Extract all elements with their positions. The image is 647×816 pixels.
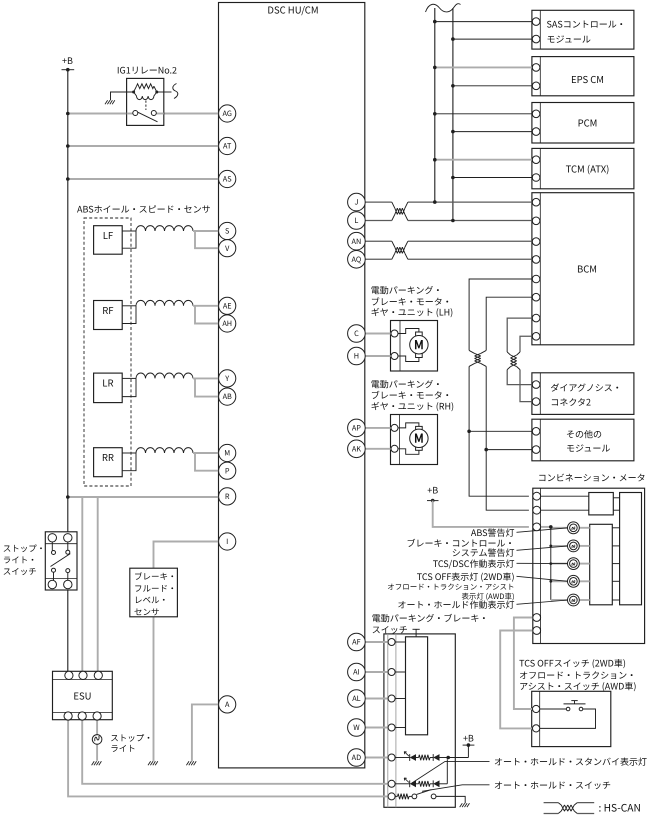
sensor RR wire to DSC (upper) — [193, 452, 219, 454]
ABS wheel speed sensor RF box — [94, 301, 123, 330]
svg-text:EPS CM: EPS CM — [571, 72, 604, 86]
auto hold switch contact row — [395, 795, 397, 797]
DSC pin AF — [348, 633, 366, 651]
wire DSC L to BCM (CAN twisted pair) — [365, 220, 532, 222]
DSC pin AQ — [348, 250, 366, 268]
svg-text:AD: AD — [352, 753, 361, 763]
stop light switch terminals — [48, 534, 56, 542]
wire AT row — [68, 145, 219, 147]
HS-CAN bus line 1 — [434, 8, 436, 202]
relay switch contacts — [133, 111, 138, 116]
wire meter top block to right block — [613, 497, 619, 499]
svg-text:P: P — [225, 466, 230, 476]
svg-text:ストップ・: ストップ・ — [3, 543, 46, 555]
svg-text:RF: RF — [102, 303, 113, 317]
wire DSC H to parking brake motor LH — [365, 355, 391, 357]
TCS OFF push switch contacts — [540, 708, 567, 710]
wire meter pin to top block 1 — [541, 495, 589, 497]
motor brushes — [416, 426, 423, 431]
wire to TCS/DSC indicator lamp — [551, 563, 568, 565]
wire I row to brake fluid level sensor and ground — [154, 542, 219, 762]
ground for brake fluid level sensor — [148, 761, 158, 765]
lamp daisy chain vertical — [550, 527, 552, 600]
TCS OFF switch box — [532, 691, 611, 746]
wire BCM pin7 to diagnosis connector 2 (twisted) — [507, 318, 532, 385]
wire A row to ground — [192, 704, 219, 761]
svg-text:TCS OFFスイッチ (2WD車): TCS OFFスイッチ (2WD車) — [519, 657, 626, 670]
stop light switch internal links — [51, 542, 53, 551]
svg-text:+B: +B — [427, 484, 438, 497]
sensor RR wire to DSC (lower) — [195, 453, 219, 471]
svg-text:LR: LR — [102, 375, 113, 389]
svg-text:I: I — [226, 537, 228, 547]
wire DSC AD to parking brake switch — [365, 757, 388, 759]
DSC pin M — [219, 444, 236, 461]
relay lead to ignition (continuation squiggle) — [157, 91, 172, 93]
relay coil lead to ground — [111, 92, 134, 100]
svg-text:モジュール: モジュール — [547, 33, 591, 46]
DSC pin AG — [219, 105, 236, 122]
DSC pin C — [348, 325, 366, 343]
wire DSC AN to BCM (CAN twisted pair) — [365, 240, 532, 242]
leader TCS OFF indicator light — [517, 576, 569, 581]
DSC pin R — [219, 488, 236, 505]
ABS wheel speed sensor LF box — [94, 226, 123, 255]
sensor RF wire to DSC (upper) — [193, 305, 219, 307]
wire bus to EPS CM pin 2 — [453, 85, 533, 87]
svg-text:AH: AH — [222, 319, 232, 329]
svg-text:: HS-CAN: : HS-CAN — [599, 800, 641, 815]
DSC pin AB — [219, 388, 236, 405]
svg-text:レベル・: レベル・ — [134, 594, 168, 606]
sensor LR top lead — [122, 377, 136, 379]
combination meter box — [533, 488, 645, 643]
auto hold switch blade — [417, 790, 432, 795]
DSC pin AS — [219, 170, 236, 187]
relay row wire segments inside box — [127, 113, 133, 115]
DSC pin AI — [348, 663, 366, 681]
wire to brake system warning lamp — [551, 545, 568, 547]
TCM (ATX) box — [532, 148, 634, 188]
PCM pins — [532, 110, 540, 118]
sensor LF top lead — [122, 230, 136, 232]
EPS CM pins — [532, 64, 540, 72]
ground for auto hold switch — [460, 803, 470, 807]
SAS module pins — [532, 18, 540, 26]
stop light lamp — [92, 735, 102, 745]
svg-text:AE: AE — [223, 301, 232, 311]
wire DSC W to parking brake switch — [365, 727, 388, 729]
DSC pin I — [219, 533, 236, 550]
svg-text:AI: AI — [353, 668, 360, 678]
svg-text:TCM (ATX): TCM (ATX) — [566, 162, 610, 176]
sensor RR twisted cable coil — [136, 448, 193, 453]
SAS control module box — [532, 10, 634, 49]
electric parking brake motor gear unit RH box — [391, 415, 438, 465]
sensor RF bottom lead — [122, 306, 136, 324]
wire R row to ESU branches — [68, 496, 219, 498]
wire bus to TCM pin 1 — [435, 159, 533, 161]
svg-text:AT: AT — [223, 142, 232, 152]
DSC pin AL — [348, 690, 366, 708]
wire meter to TCS OFF switch pin 2 — [500, 631, 533, 729]
svg-text:ブレーキ・: ブレーキ・ — [134, 571, 177, 583]
wire ESU to auto hold standby row — [82, 716, 388, 784]
wire ESU to stop light lamp and ground — [96, 716, 98, 761]
electric parking brake motor gear unit LH box — [391, 321, 438, 372]
svg-text:LF: LF — [103, 228, 113, 242]
sensor RR bottom lead — [122, 453, 136, 471]
bus continuation wave symbol — [426, 4, 461, 12]
combination meter pins — [533, 492, 541, 500]
relay mechanical link (dashed) — [145, 101, 147, 111]
svg-text:AS: AS — [223, 175, 232, 185]
ESU top terminals — [65, 671, 73, 679]
diagnosis connector 2 box — [532, 373, 634, 415]
lamp output wires to driver block — [579, 527, 590, 529]
sensor LF wire to DSC (lower) — [195, 231, 219, 248]
sensor LR wire to DSC (lower) — [195, 378, 219, 396]
wire bus to TCM pin 2 — [453, 177, 533, 179]
svg-text:S: S — [225, 227, 230, 237]
ABS wheel speed sensor RR box — [94, 448, 123, 477]
svg-text:ABSホイール・スピード・センサ: ABSホイール・スピード・センサ — [77, 203, 211, 216]
stop light switch contacts — [52, 551, 56, 555]
svg-text:オート・ホールド・スタンバイ表示灯: オート・ホールド・スタンバイ表示灯 — [494, 755, 647, 768]
DSC pin W — [348, 719, 366, 737]
motor wiring lower — [398, 356, 419, 362]
TCS OFF switch pins — [533, 705, 540, 712]
wire bus to EPS CM pin 1 — [435, 66, 533, 68]
wire branch to ESU pin 2 — [81, 497, 83, 673]
twisted pair symbol J/L — [392, 202, 408, 220]
twisted pair symbol AN/AQ — [392, 241, 408, 259]
wire AG row (IG1 relay to DSC pin AG) — [68, 113, 219, 115]
motor M circle — [410, 429, 428, 447]
sensor RF twisted cable coil — [136, 300, 193, 305]
brake fluid level sensor box — [130, 568, 178, 617]
DSC pin A — [219, 696, 236, 713]
svg-text:モジュール: モジュール — [566, 442, 610, 455]
meter internal block right — [620, 493, 642, 605]
svg-text:+B: +B — [62, 54, 73, 67]
sensor LF wire to DSC (upper) — [193, 230, 219, 232]
DSC pin AH — [219, 315, 236, 332]
sensor LR wire to DSC (upper) — [193, 377, 219, 379]
DSC pin AN — [348, 232, 366, 250]
DSC HU/CM unit box — [219, 3, 365, 768]
motor wiring upper — [398, 423, 419, 428]
motor brushes — [416, 332, 423, 337]
svg-text:TCS/DSC作動表示灯: TCS/DSC作動表示灯 — [433, 557, 515, 570]
wire BCM pin8 to diagnosis connector 2 (twisted) — [520, 336, 532, 401]
svg-text:AF: AF — [352, 638, 360, 648]
other modules box — [532, 419, 634, 461]
svg-text:コンビネーション・メータ: コンビネーション・メータ — [538, 471, 646, 484]
svg-text:AL: AL — [352, 694, 360, 704]
DSC pin AE — [219, 297, 236, 314]
wire bus to PCM pin 2 — [453, 131, 533, 133]
wire LED row 2 up to +B node — [446, 759, 448, 784]
svg-text:センサ: センサ — [134, 606, 160, 618]
IG1 relay No.2 box — [127, 78, 164, 125]
wire BCM pin6 down to other modules and meter (twisted) — [486, 297, 532, 510]
pin stubs to contact block — [395, 641, 405, 643]
svg-text:ライト・: ライト・ — [3, 554, 37, 566]
auto hold standby LED row (AD) — [395, 757, 410, 759]
diagnosis connector 2 pins — [532, 381, 540, 389]
twisted pair symbol BCM/meter — [469, 350, 486, 366]
BCM pins — [532, 198, 540, 206]
leader line auto hold standby indicator — [412, 761, 490, 783]
ground for DSC pin A — [186, 761, 196, 765]
driver block to right block connectors — [612, 527, 619, 529]
TCS OFF switch return wire — [540, 709, 596, 728]
sensor LF twisted cable coil — [136, 226, 193, 231]
relay switch blade — [138, 112, 158, 122]
sensor RF wire to DSC (lower) — [195, 306, 219, 324]
DSC pin AT — [219, 137, 236, 154]
svg-text:ライト: ライト — [110, 743, 136, 755]
svg-text:コネクタ2: コネクタ2 — [550, 396, 591, 409]
svg-text:ダイアグノシス・: ダイアグノシス・ — [550, 381, 621, 394]
parking brake switch inner contact block — [406, 637, 428, 735]
stop light switch blade — [51, 554, 71, 567]
svg-text:その他の: その他の — [566, 428, 602, 441]
wire branch to other modules pin 1 — [469, 430, 532, 432]
sensor LR bottom lead — [122, 378, 136, 396]
wire branch to other modules pin 2 — [486, 449, 532, 451]
wire ESU to auto hold switch row (lower) — [68, 716, 388, 796]
brake control system warning lamp — [568, 540, 580, 552]
PCM box — [532, 103, 634, 144]
wire DSC AP to parking brake motor RH — [365, 427, 391, 429]
svg-text:RR: RR — [102, 450, 114, 464]
wire branch to ESU pin 3 — [97, 497, 99, 673]
wire DSC AL to parking brake switch — [365, 698, 388, 700]
sensor RF top lead — [122, 305, 136, 307]
TCS/DSC indicator lamp — [568, 558, 580, 570]
svg-text:ギヤ・ユニット (RH): ギヤ・ユニット (RH) — [371, 400, 454, 413]
motor pins — [391, 330, 398, 337]
wire DSC J to BCM (CAN twisted pair) — [365, 201, 532, 203]
wire stop light switch to ESU — [67, 589, 69, 672]
wire AS row — [68, 178, 219, 180]
svg-text:AP: AP — [352, 424, 361, 434]
parking brake switch pins — [388, 639, 395, 646]
svg-text:BCM: BCM — [577, 262, 597, 276]
main left bus wire from +B — [67, 70, 69, 534]
parking brake switch connector rails — [387, 634, 389, 807]
TCM pins — [532, 156, 540, 164]
wire meter to TCS OFF switch pin 1 — [514, 618, 533, 710]
svg-text:R: R — [225, 492, 230, 502]
wire +B to meter lamp feed pin — [433, 501, 529, 527]
svg-text:AN: AN — [352, 237, 362, 247]
meter internal block middle (lamp driver) — [590, 524, 613, 605]
svg-text:オート・ホールド作動表示灯: オート・ホールド作動表示灯 — [397, 598, 514, 611]
leader ABS warning light — [517, 528, 569, 533]
auto hold switch LED row — [395, 783, 410, 785]
svg-text:C: C — [354, 329, 359, 339]
leader line auto hold switch — [422, 785, 490, 792]
svg-text:M: M — [224, 449, 230, 459]
wire meter pin to top block 2 — [541, 509, 589, 511]
svg-text:Y: Y — [225, 374, 229, 384]
relay coil node dots — [132, 91, 135, 94]
wire to ABS warning lamp — [551, 527, 568, 529]
DSC pin V — [219, 240, 236, 257]
junction dots on left bus — [66, 68, 70, 72]
sensor RR top lead — [122, 452, 136, 454]
DSC pin S — [219, 222, 236, 239]
svg-text:ギヤ・ユニット (LH): ギヤ・ユニット (LH) — [371, 306, 454, 319]
sensor LF bottom lead — [122, 231, 136, 248]
switch actuator mark — [415, 629, 417, 637]
svg-text:SASコントロール・: SASコントロール・ — [547, 18, 626, 31]
svg-text:AQ: AQ — [352, 255, 362, 265]
svg-text:アシスト・スイッチ (AWD車): アシスト・スイッチ (AWD車) — [519, 679, 636, 692]
svg-text:A: A — [225, 700, 230, 710]
svg-text:J: J — [354, 198, 358, 208]
svg-text:IG1リレーNo.2: IG1リレーNo.2 — [117, 64, 177, 77]
svg-text:M: M — [414, 430, 424, 447]
wire bus to PCM pin 1 — [435, 113, 533, 115]
svg-text:スイッチ: スイッチ — [372, 623, 408, 636]
wire bus to SAS pin 2 — [453, 38, 533, 40]
other modules pins — [532, 428, 540, 436]
svg-text:フルード・: フルード・ — [134, 582, 177, 594]
DSC pin J — [348, 193, 366, 211]
wire +B to LED rows — [448, 757, 468, 759]
EPS CM box — [532, 57, 634, 96]
svg-text:DSC HU/CM: DSC HU/CM — [267, 3, 318, 17]
motor M circle — [410, 336, 428, 354]
HS-CAN legend twisted pair symbol — [544, 803, 595, 814]
sensor LR twisted cable coil — [136, 373, 193, 378]
wire DSC AF to parking brake switch — [365, 641, 388, 643]
DSC pin AK — [348, 440, 366, 458]
relay coil inductor — [134, 92, 157, 100]
ESU bottom terminals — [64, 712, 72, 720]
wire DSC C to parking brake motor LH — [365, 333, 391, 335]
auto hold indicator lamp — [568, 594, 580, 606]
svg-text:+B: +B — [463, 732, 474, 745]
DSC pin H — [348, 347, 366, 365]
wire DSC AQ to BCM (CAN twisted pair) — [365, 258, 532, 260]
twisted pair symbol BCM/diagnosis — [507, 352, 520, 370]
relay ground — [105, 100, 115, 104]
wire to auto hold indicator lamp — [551, 599, 568, 601]
svg-text:AK: AK — [352, 444, 361, 454]
svg-text:M: M — [414, 336, 424, 353]
meter internal block top — [589, 493, 614, 515]
ABS wheel speed sensor dashed group box — [84, 218, 131, 486]
svg-text:オート・ホールド・スイッチ: オート・ホールド・スイッチ — [494, 778, 611, 791]
wire bus to SAS pin 1 — [435, 21, 533, 23]
svg-text:W: W — [353, 723, 360, 733]
leader TCS/DSC indicator light — [517, 562, 569, 564]
svg-text:スイッチ: スイッチ — [3, 566, 37, 578]
ESU box — [53, 671, 113, 719]
TCS OFF indicator lamp — [568, 575, 580, 587]
svg-text:ESU: ESU — [73, 689, 91, 703]
motor wiring lower — [398, 449, 419, 455]
electric parking brake switch box — [384, 634, 455, 807]
svg-text:AG: AG — [223, 109, 232, 119]
svg-text:H: H — [354, 352, 359, 362]
wire BCM pin5 down to other modules and meter (twisted) — [469, 279, 532, 496]
ABS warning lamp — [568, 522, 580, 534]
wire lamp feed pin to daisy chain — [541, 526, 551, 528]
leader brake control system warning light — [517, 546, 569, 550]
motor wiring upper — [398, 329, 419, 334]
stop light switch box — [45, 532, 77, 590]
wire DSC AK to parking brake motor RH — [365, 448, 391, 450]
BCM box — [532, 193, 634, 345]
DSC pin P — [219, 462, 236, 479]
DSC pin AP — [348, 419, 366, 437]
auto hold switch wire to ground — [436, 796, 465, 803]
svg-text:AB: AB — [223, 392, 232, 402]
svg-text:PCM: PCM — [578, 116, 598, 130]
DSC pin Y — [219, 370, 236, 387]
wire to TCS OFF indicator lamp — [551, 580, 568, 582]
relay coil resistor — [137, 84, 154, 89]
svg-text:L: L — [354, 216, 358, 226]
motor pins — [391, 424, 398, 431]
HS-CAN bus line 2 — [452, 8, 454, 221]
ABS wheel speed sensor LR box — [94, 373, 123, 403]
leader auto hold indicator light — [517, 600, 569, 604]
DSC pin L — [348, 212, 366, 230]
wire DSC AI to parking brake switch — [365, 671, 388, 673]
DSC pin AD — [348, 749, 366, 767]
